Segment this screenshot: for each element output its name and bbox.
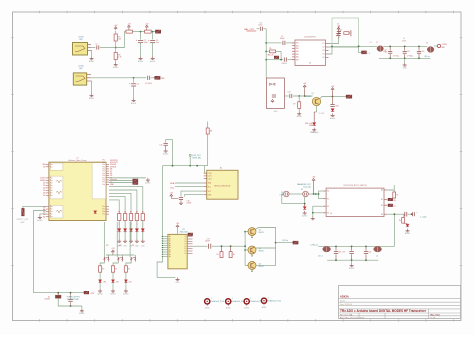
wire R4 to PWM label: [151, 31, 155, 33]
svg-text:GND: GND: [403, 67, 408, 69]
U3 right pin stubs: [187, 236, 192, 238]
svg-text:B1: B1: [381, 199, 383, 201]
wire filter left tap and label: [359, 46, 362, 52]
resistor R8 on vertical net: [207, 122, 209, 129]
svg-text:2N3904: 2N3904: [305, 96, 311, 98]
capacitor C20: [365, 246, 367, 250]
resistor R4: [145, 30, 152, 33]
svg-text:Rx: Rx: [115, 269, 117, 271]
svg-text:TX LED: TX LED: [318, 113, 325, 115]
wire C6 to vertical bus: [263, 28, 266, 30]
U2 right pin stubs: [326, 43, 329, 45]
svg-text:Pxx: Pxx: [50, 216, 53, 218]
diode pair D2 D3: [270, 83, 273, 85]
svg-text:CLK2: CLK2: [208, 178, 212, 180]
wire CON1 to C1: [91, 47, 95, 49]
wire branch to C7: [266, 42, 281, 44]
wire node to C5: [134, 77, 147, 79]
wire CON1 pin3 to ground: [90, 51, 93, 57]
svg-text:C? 680p: C? 680p: [407, 56, 413, 58]
svg-text:AGND: AGND: [131, 102, 137, 105]
svg-text:O2: O2: [322, 47, 324, 49]
svg-text:Sheet: Sheet: [340, 300, 346, 303]
trimmer capacitor CT1: [338, 26, 340, 31]
wire 12V feed: [34, 292, 85, 294]
wire U2 output to RF line: [329, 46, 359, 48]
svg-text:74ACT244: 74ACT244: [179, 231, 187, 234]
svg-text:R5: R5: [269, 48, 271, 50]
svg-text:AGND: AGND: [97, 292, 103, 295]
wire U2 pin to oscillator loop: [329, 46, 333, 54]
svg-text:Pxx: Pxx: [102, 180, 105, 182]
capacitor C8: [283, 58, 285, 62]
svg-text:AGND: AGND: [349, 267, 355, 270]
svg-text:ATxx V3.0 - Visual 71.8 R1.4: ATxx V3.0 - Visual 71.8 R1.4: [340, 316, 364, 319]
svg-text:U2: U2: [309, 62, 311, 64]
svg-text:X2: X2: [301, 189, 303, 191]
U2 left pin stubs: [292, 42, 295, 44]
svg-text:C1: C1: [95, 44, 97, 46]
capacitor C10 in box: [272, 94, 276, 96]
svg-text:BS170: BS170: [259, 232, 264, 234]
wire PA output: [276, 242, 293, 244]
resistor R6 in loop: [344, 32, 349, 35]
svg-text:MIC_IN: MIC_IN: [268, 54, 275, 56]
svg-text:C18: C18: [338, 251, 341, 253]
ground PA filter: [351, 260, 353, 263]
VOX detector box: [266, 78, 284, 108]
U4 right pin stubs: [384, 189, 387, 191]
wire +12V rail down: [34, 211, 46, 293]
wire C8 to U2 pin: [288, 59, 296, 61]
svg-text:Yx: Yx: [184, 251, 186, 253]
capacitor C14: [418, 46, 420, 50]
svg-text:TRx ADX = Arduino based DIG: TRx ADX = Arduino based DIGITAL MODES HF…: [340, 309, 427, 313]
node junction mic: [133, 77, 135, 79]
wire T2 to antenna: [434, 45, 437, 47]
svg-text:100nF: 100nF: [280, 38, 285, 40]
wire U3 output: [193, 245, 208, 247]
svg-text:SDA: SDA: [170, 182, 175, 185]
LED bank D6-D10: [118, 229, 121, 232]
svg-text:BS170: BS170: [259, 266, 264, 268]
transformer T3: [323, 246, 331, 252]
LED D14 at QSD: [304, 204, 306, 207]
svg-text:Pxx: Pxx: [102, 173, 105, 175]
svg-text:Yx: Yx: [184, 248, 186, 250]
svg-text:Pxx: Pxx: [102, 175, 105, 177]
svg-text:Rev: 2021-04: Rev: 2021-04: [340, 304, 353, 306]
wire R5 corner down: [280, 51, 282, 59]
wire U4 pin1 resistor: [387, 190, 394, 192]
capacitor C7: [282, 41, 284, 45]
op-amp/receiver IC U2 CD2003: [295, 40, 326, 66]
net label +12V power: [84, 291, 89, 294]
svg-text:R8: R8: [210, 131, 212, 133]
transformer T2: [427, 47, 434, 53]
ground below LED D4: [332, 113, 334, 115]
svg-text:Rx: Rx: [233, 254, 235, 256]
svg-text:Pxx: Pxx: [102, 214, 105, 216]
U3 left pin stubs: [163, 236, 168, 238]
svg-text:D1: D1: [48, 296, 50, 298]
capacitor C5: [147, 76, 149, 80]
svg-text:Yx: Yx: [184, 241, 186, 243]
U1 internal symbol marks: [56, 180, 62, 183]
wire filter to antenna switch: [393, 214, 395, 246]
svg-text:Pxx: Pxx: [50, 209, 53, 211]
resistor R14 pulldown: [99, 266, 102, 272]
svg-text:Pxx: Pxx: [102, 166, 105, 168]
svg-text:Pxx: Pxx: [102, 209, 105, 211]
wire gate bus vertical: [244, 232, 246, 266]
svg-text:Pxx: Pxx: [102, 206, 105, 208]
resistor R5 branch: [266, 50, 269, 52]
svg-text:PinHdr1x01_P2.54: PinHdr1x01_P2.54: [211, 301, 224, 303]
svg-text:Pxx: Pxx: [102, 184, 105, 186]
wire collector to TX node: [320, 97, 333, 99]
grounds below button LEDs: [99, 283, 101, 289]
svg-text:CLK1: CLK1: [208, 176, 212, 178]
net label SUPPLY +12V flag at U1: [23, 206, 46, 208]
wire R3 to R4: [133, 31, 145, 33]
wire A1 supply pins: [181, 191, 204, 196]
svg-text:L4: L4: [376, 255, 378, 257]
capacitor C9 at U2 supply: [336, 33, 340, 35]
svg-text:L3 1:4: L3 1:4: [318, 255, 323, 257]
capacitor C21: [404, 212, 406, 217]
wire D1 lower rail: [58, 298, 82, 306]
ground below D14: [304, 211, 306, 213]
wire vertical input bus: [265, 29, 267, 78]
svg-text:S2: S2: [327, 206, 329, 208]
resistor R17: [221, 246, 223, 251]
title block: [339, 286, 461, 319]
svg-text:C? 470p: C? 470p: [393, 56, 399, 58]
ground at U4 select: [312, 217, 314, 219]
svg-text:RF Out: RF Out: [283, 239, 289, 242]
svg-text:Pxx: Pxx: [50, 164, 53, 166]
svg-text:CLK0: CLK0: [208, 173, 212, 175]
svg-text:T1: T1: [376, 42, 378, 44]
svg-text:AGND: AGND: [123, 292, 129, 295]
svg-text:Rx: Rx: [217, 254, 219, 256]
A1 pin stubs: [204, 172, 207, 174]
svg-text:Pxx: Pxx: [50, 185, 53, 187]
svg-text:1N4007: 1N4007: [44, 299, 50, 301]
svg-text:V: 1/1: V: 1/1: [431, 317, 436, 319]
svg-text:C_rx22p: C_rx22p: [420, 216, 426, 219]
transistor Q3 BS170: [245, 249, 248, 251]
svg-text:IN6: IN6: [296, 57, 299, 59]
svg-text:AGND: AGND: [110, 292, 116, 295]
wire filter ground bus: [379, 57, 431, 59]
supply +5V at R4: [145, 25, 148, 27]
supply +5V at R3: [128, 25, 131, 27]
capacitor C11: [289, 94, 291, 98]
wire long vertical to buffer: [162, 166, 164, 237]
svg-text:Rev. V1.0: Rev. V1.0: [431, 315, 441, 317]
svg-text:Pxx: Pxx: [102, 160, 105, 162]
capacitor C18: [335, 246, 337, 250]
switch SW3 TX: [130, 257, 132, 259]
ground CON2: [91, 94, 93, 96]
svg-text:R7: R7: [293, 104, 295, 106]
svg-text:Rx: Rx: [399, 220, 401, 222]
supply +5V button bus: [112, 250, 115, 252]
svg-text:Pxx: Pxx: [50, 206, 53, 208]
svg-text:C20: C20: [368, 251, 371, 253]
resistor R20 to ground: [403, 214, 405, 217]
svg-text:C15: C15: [159, 144, 162, 146]
ground power entry: [81, 306, 83, 309]
svg-text:Yx: Yx: [184, 253, 186, 255]
wire CON2 to node: [91, 77, 134, 79]
LED D4 column: [332, 97, 334, 105]
svg-text:74CBT3253_RXTX_SWITCH: 74CBT3253_RXTX_SWITCH: [343, 185, 367, 187]
wire PA filter ground bus: [327, 259, 378, 261]
svg-text:O4: O4: [322, 54, 324, 56]
svg-text:100nF: 100nF: [205, 241, 210, 243]
svg-text:AGND: AGND: [145, 182, 151, 185]
svg-text:DBLED_GD: DBLED_GD: [310, 132, 319, 134]
U4 left pin stubs: [323, 190, 326, 192]
capacitor C16 at A1: [179, 196, 183, 198]
LED D5 red 5mm: [314, 111, 316, 113]
capacitor C3 electrolytic: [152, 32, 154, 40]
svg-text:4.7k: 4.7k: [118, 57, 121, 59]
svg-text:D7: D7: [43, 195, 45, 197]
svg-text:1: 1: [250, 298, 251, 300]
test point connector TP3: [244, 299, 249, 304]
svg-text:SCL: SCL: [208, 186, 211, 188]
resistor R3: [126, 30, 133, 33]
wire staircase to LED resistors: [109, 187, 143, 214]
supply +5V above R1: [114, 27, 117, 29]
resistor R2 (lower divider): [115, 48, 117, 53]
capacitor C4 electrolytic to ground: [133, 78, 135, 83]
test point connector TP1: [205, 299, 210, 304]
svg-text:IN4: IN4: [296, 51, 299, 53]
svg-text:A7: A7: [43, 215, 45, 218]
svg-text:SI5351_MODULE: SI5351_MODULE: [214, 185, 231, 187]
svg-text:1nF: 1nF: [385, 52, 388, 54]
capacitor C22: [70, 293, 72, 299]
capacitor C1: [96, 45, 98, 49]
ground below C4: [133, 98, 135, 100]
switch SW1 UP: [103, 257, 105, 259]
supply +5V QSD: [312, 178, 315, 180]
svg-text:S0: S0: [327, 191, 329, 193]
wire CON2 pin3 to ground: [90, 81, 93, 94]
svg-text:Pxx: Pxx: [102, 164, 105, 166]
capacitor C13: [404, 46, 406, 50]
supply +5V at base node: [303, 85, 306, 87]
svg-text:AGND: AGND: [163, 152, 169, 155]
svg-text:Pxx: Pxx: [50, 214, 53, 216]
svg-text:AGND: AGND: [37, 219, 43, 222]
ground below R2: [115, 63, 117, 65]
node junction R divider: [115, 47, 117, 49]
svg-text:Rev: 10 1: N/A: Rev: 10 1: N/A: [340, 313, 353, 316]
svg-text:C14: C14: [421, 51, 424, 53]
wire U4 lower left: [313, 206, 323, 213]
svg-text:C4: C4: [137, 83, 139, 85]
ground U3: [177, 277, 179, 279]
ground below C2: [140, 56, 142, 58]
wire U3 top supply: [177, 228, 179, 234]
svg-text:BS170: BS170: [259, 251, 264, 253]
svg-text:C?: C?: [385, 49, 387, 51]
svg-text:S3: S3: [327, 213, 329, 215]
test point connector TP4: [261, 298, 266, 303]
svg-text:1: 1: [232, 298, 233, 300]
capacitor C17: [208, 244, 210, 249]
capacitor C6: [259, 27, 261, 31]
svg-text:Rx: Rx: [396, 195, 398, 197]
wire buttons to pulldowns: [100, 262, 104, 266]
svg-text:100nF: 100nF: [187, 203, 192, 205]
resistor R15 pulldown: [111, 266, 114, 272]
wire box to C11: [284, 95, 288, 97]
svg-text:U4: U4: [330, 213, 332, 215]
svg-text:Yx: Yx: [184, 246, 186, 248]
svg-text:GND: GND: [176, 282, 181, 284]
net label RF_POWER: [293, 241, 298, 244]
svg-text:Pxx: Pxx: [50, 211, 53, 213]
LED D13: [125, 272, 127, 280]
svg-text:POWER_SUPPLY: POWER_SUPPLY: [67, 297, 81, 299]
svg-text:C5 10uF: C5 10uF: [145, 83, 153, 85]
supply +5V above C9: [338, 30, 340, 33]
ground below C3: [152, 56, 154, 58]
ground at U1 right: [109, 177, 146, 179]
svg-text:Treal_side: Treal_side: [303, 186, 311, 189]
wire X1 loop down: [282, 194, 305, 204]
capacitor C12: [389, 46, 391, 50]
transformer T1: [377, 46, 383, 52]
net label MIC_IN: [274, 56, 279, 59]
svg-text:PinHdr1x01_P2.54: PinHdr1x01_P2.54: [232, 301, 245, 303]
supply +5V at A1: [170, 194, 173, 196]
ground below C15: [165, 149, 167, 151]
wire U2 pin to +5V cap: [329, 37, 339, 44]
wire button feeds: [103, 222, 105, 257]
wire T1 to C bank: [383, 45, 427, 47]
svg-text:TX/RX_SEL: TX/RX_SEL: [192, 157, 201, 159]
U1 internal blocks: [50, 163, 63, 170]
svg-text:B3: B3: [381, 214, 383, 216]
svg-text:CT: CT: [337, 23, 339, 25]
svg-text:Rx: Rx: [102, 269, 104, 271]
LED D15: [403, 222, 407, 225]
wire branch3 to C8: [266, 59, 283, 61]
svg-text:IN2: IN2: [296, 45, 299, 47]
net label at U4 B2: [388, 198, 393, 201]
svg-text:Pxx: Pxx: [50, 183, 53, 185]
wire drain loop: [255, 228, 275, 266]
svg-text:Rx: Rx: [142, 211, 144, 213]
wire C11 to base node: [293, 95, 313, 97]
svg-text:AGND: AGND: [150, 60, 156, 63]
ground below LED D5: [313, 128, 315, 130]
wire C7 to U2 pin: [286, 42, 295, 44]
svg-text:Rx: Rx: [136, 211, 138, 213]
svg-text:AGND: AGND: [330, 117, 336, 120]
svg-text:T2: T2: [426, 42, 428, 44]
wire BAL_OUT to C6: [257, 28, 260, 30]
ground below D15: [407, 229, 409, 231]
ground filter bus: [404, 58, 406, 63]
test point connector TP2: [226, 299, 231, 304]
svg-text:Pxx: Pxx: [50, 195, 53, 197]
wire U4 left inputs: [319, 190, 323, 192]
svg-text:C11: C11: [288, 92, 291, 94]
resistor R1 (upper divider): [115, 42, 117, 48]
svg-text:Pxx: Pxx: [102, 182, 105, 184]
wire C17 to gate bus: [212, 245, 245, 247]
LED D12: [112, 272, 114, 280]
svg-text:AGND: AGND: [79, 312, 85, 315]
svg-text:PinHdr1x01_P2.54: PinHdr1x01_P2.54: [268, 301, 281, 303]
crystal Y1 bar: [350, 30, 352, 36]
svg-text:L1: L1: [370, 42, 372, 44]
wire TX node to label: [333, 96, 346, 98]
capacitor C2 electrolytic: [140, 32, 142, 40]
wire C1 to node: [100, 47, 116, 49]
wire to SI5351 corner: [163, 165, 173, 167]
wire RF line to antenna filter: [359, 45, 378, 47]
CON1 pin stubs: [88, 44, 92, 46]
svg-text:1: 1: [268, 298, 269, 300]
svg-text:Pxx: Pxx: [102, 169, 105, 171]
svg-text:A1: A1: [220, 167, 222, 170]
ground at U1 left: [40, 214, 46, 215]
svg-text:AGND: AGND: [297, 115, 303, 118]
ground at A1: [180, 199, 182, 201]
transistor Q2 BS170: [245, 231, 248, 233]
transistor Q1 2N3904: [312, 97, 320, 105]
svg-text:O3: O3: [322, 50, 324, 52]
resistor R16 pulldown: [124, 266, 127, 272]
wire emitter down: [316, 106, 318, 112]
transformer T4: [374, 246, 382, 252]
supply arrow in box: [271, 100, 274, 102]
supply +5V at collector node: [331, 88, 334, 90]
svg-text:C13: C13: [407, 51, 410, 53]
U1 left pin stubs: [46, 163, 49, 165]
ground below R7: [298, 112, 300, 114]
wire PA filter line: [318, 245, 394, 247]
LED D11: [99, 272, 101, 280]
net label PWM: [155, 30, 160, 33]
svg-text:100n: 100n: [258, 25, 262, 27]
svg-text:Pxx: Pxx: [102, 171, 105, 173]
svg-text:O1: O1: [322, 43, 324, 45]
resistor R7 to ground: [298, 96, 300, 102]
net label at U3 vcc: [188, 233, 193, 236]
svg-text:GND: GND: [274, 111, 279, 113]
svg-text:AGND: AGND: [405, 232, 411, 235]
wire X2 to U4: [308, 193, 318, 195]
svg-text:AGND: AGND: [89, 97, 95, 100]
capacitor C19: [351, 246, 353, 250]
ground CON1: [91, 57, 93, 59]
net label at U4 B3: [388, 204, 393, 207]
svg-text:GND_B: GND_B: [365, 53, 370, 55]
wire U4 output: [387, 213, 404, 215]
capacitor C15 to ground: [164, 142, 168, 144]
